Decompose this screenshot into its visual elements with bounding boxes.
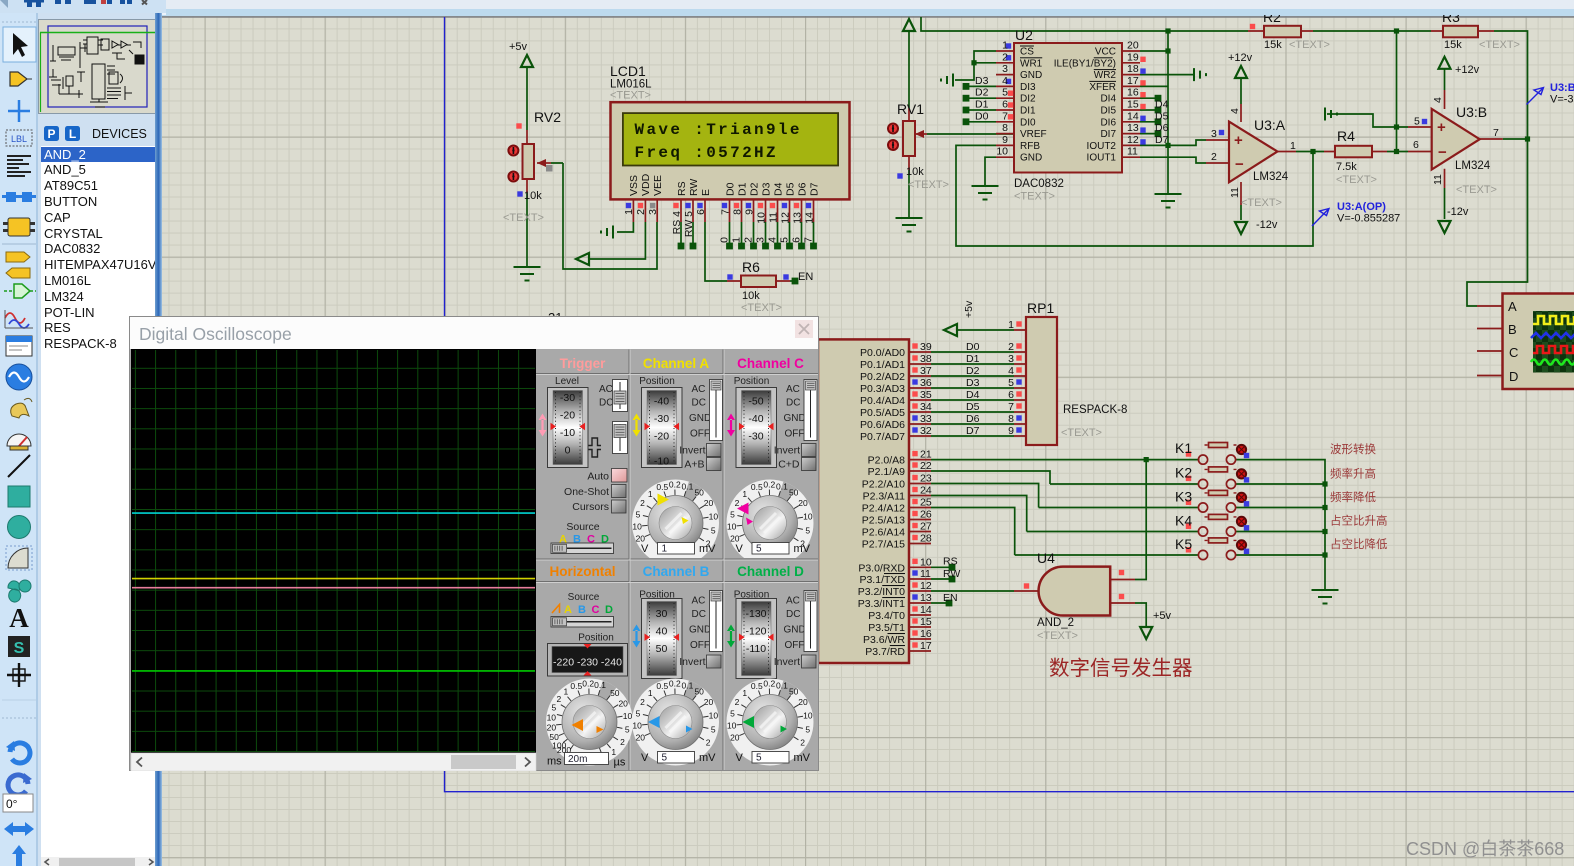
svg-text:D4: D4 — [773, 182, 785, 196]
svg-text:Source: Source — [568, 592, 600, 603]
svg-text:数字信号发生器: 数字信号发生器 — [1049, 657, 1193, 680]
svg-text:DC: DC — [692, 398, 706, 409]
svg-text:LBL: LBL — [11, 134, 27, 144]
svg-text:D1: D1 — [737, 182, 749, 196]
svg-text:+12v: +12v — [1455, 64, 1480, 76]
svg-text:4: 4 — [1008, 365, 1014, 377]
svg-text:LM324: LM324 — [1253, 171, 1289, 183]
svg-text:K3: K3 — [1175, 488, 1192, 504]
svg-text:38: 38 — [920, 353, 932, 365]
svg-text:-20: -20 — [654, 431, 669, 443]
svg-text:OFF: OFF — [690, 429, 710, 440]
svg-text:P3.5/T1: P3.5/T1 — [868, 622, 905, 634]
svg-text:10: 10 — [756, 212, 768, 224]
svg-text:5: 5 — [756, 753, 762, 764]
svg-text:5: 5 — [662, 753, 668, 764]
svg-text:D0: D0 — [975, 110, 989, 122]
svg-text:2: 2 — [743, 237, 755, 243]
svg-text:RW 5: RW 5 — [683, 211, 695, 237]
svg-text:D1: D1 — [966, 353, 980, 365]
svg-text:11: 11 — [920, 568, 931, 580]
svg-text:−: − — [1235, 156, 1244, 173]
svg-text:-10: -10 — [560, 427, 575, 439]
svg-text:AC: AC — [786, 384, 800, 395]
svg-text:VCC: VCC — [1095, 47, 1116, 58]
svg-text:XFER: XFER — [1089, 82, 1116, 93]
svg-text:Position: Position — [578, 633, 614, 644]
svg-text:<TEXT>: <TEXT> — [1061, 427, 1102, 439]
svg-text:26: 26 — [920, 509, 932, 521]
svg-text:-20: -20 — [560, 410, 575, 422]
svg-text:P0.5/AD5: P0.5/AD5 — [860, 407, 905, 419]
svg-text:D5: D5 — [1155, 110, 1169, 122]
svg-text:AC: AC — [786, 596, 800, 607]
svg-text:15: 15 — [920, 616, 932, 628]
svg-text:WR1: WR1 — [1020, 58, 1043, 69]
svg-text:-130: -130 — [745, 608, 766, 620]
svg-text:7.5k: 7.5k — [1336, 161, 1357, 173]
svg-text:V: V — [641, 752, 649, 764]
svg-text:P0.4/AD4: P0.4/AD4 — [860, 395, 905, 407]
svg-text:Freq :0572HZ: Freq :0572HZ — [635, 144, 778, 162]
svg-text:D3: D3 — [966, 377, 980, 389]
svg-text:DI0: DI0 — [1020, 117, 1036, 128]
svg-text:D5: D5 — [966, 401, 980, 413]
svg-text:34: 34 — [920, 401, 932, 413]
svg-text:D: D — [605, 604, 613, 616]
svg-text:9: 9 — [744, 209, 756, 215]
svg-text:25: 25 — [920, 497, 932, 509]
svg-text:19: 19 — [1127, 51, 1139, 63]
svg-text:2: 2 — [1002, 51, 1008, 63]
svg-text:占空比降低: 占空比降低 — [1330, 537, 1388, 551]
svg-text:A+B: A+B — [684, 459, 704, 471]
svg-text:Cursors: Cursors — [572, 501, 609, 513]
svg-text:5: 5 — [1008, 377, 1014, 389]
svg-text:-12v: -12v — [1447, 206, 1469, 218]
svg-text:4: 4 — [1229, 108, 1241, 114]
svg-text:DI6: DI6 — [1100, 117, 1116, 128]
svg-text:GND: GND — [1020, 153, 1042, 164]
svg-text:V=-0.855287: V=-0.855287 — [1337, 213, 1400, 225]
svg-text:D7: D7 — [1155, 134, 1169, 146]
svg-text:P0.2/AD2: P0.2/AD2 — [860, 371, 905, 383]
svg-text:<TEXT>: <TEXT> — [1289, 39, 1330, 51]
svg-text:频率降低: 频率降低 — [1330, 490, 1376, 504]
svg-text:5: 5 — [1002, 87, 1008, 99]
svg-text:D2: D2 — [749, 182, 761, 196]
svg-text:20: 20 — [1127, 40, 1139, 52]
svg-text:−: − — [1438, 144, 1447, 161]
svg-text:P3.7/RD: P3.7/RD — [865, 646, 905, 658]
svg-text:mV: mV — [699, 543, 716, 555]
svg-text:12: 12 — [920, 580, 932, 592]
svg-text:37: 37 — [920, 365, 932, 377]
svg-text:Channel A: Channel A — [643, 356, 710, 371]
svg-text:8: 8 — [1008, 413, 1014, 425]
svg-text:P3.1/TXD: P3.1/TXD — [859, 574, 905, 586]
svg-text:27: 27 — [920, 521, 932, 533]
svg-text:OFF: OFF — [785, 640, 805, 651]
svg-text:EN: EN — [943, 592, 958, 604]
svg-text:28: 28 — [920, 533, 932, 545]
svg-text:Invert: Invert — [774, 445, 800, 457]
svg-text:3: 3 — [1002, 63, 1008, 75]
svg-text:<TEXT>: <TEXT> — [1336, 174, 1377, 186]
svg-text:P0.1/AD1: P0.1/AD1 — [860, 359, 905, 371]
svg-text:GND: GND — [1020, 70, 1042, 81]
svg-text:DC: DC — [692, 609, 706, 620]
svg-text:mV: mV — [699, 752, 716, 764]
svg-text:8: 8 — [1002, 122, 1008, 134]
svg-text:P3.6/WR: P3.6/WR — [863, 634, 905, 646]
svg-text:22: 22 — [920, 460, 932, 472]
svg-text:CS: CS — [1020, 47, 1034, 58]
svg-text:P0.7/AD7: P0.7/AD7 — [860, 431, 905, 443]
svg-text:-40: -40 — [748, 413, 763, 425]
svg-text:8: 8 — [732, 209, 744, 215]
svg-text:-30: -30 — [654, 413, 669, 425]
svg-text:DC: DC — [599, 398, 613, 409]
svg-text:D1: D1 — [975, 99, 989, 111]
svg-text:WR2: WR2 — [1094, 70, 1117, 81]
svg-text:1: 1 — [1290, 140, 1296, 152]
svg-text:DI3: DI3 — [1020, 82, 1036, 93]
svg-text:IOUT2: IOUT2 — [1087, 141, 1117, 152]
svg-text:RS: RS — [676, 181, 688, 196]
svg-text:DI2: DI2 — [1020, 94, 1036, 105]
svg-text:DEVICES: DEVICES — [92, 127, 147, 141]
svg-text:V=-3.: V=-3. — [1550, 94, 1574, 106]
svg-text:-120: -120 — [745, 626, 766, 638]
svg-text:13: 13 — [920, 592, 932, 604]
svg-text:35: 35 — [920, 389, 932, 401]
svg-text:DI7: DI7 — [1100, 129, 1116, 140]
svg-text:1: 1 — [1008, 319, 1014, 331]
svg-text:-50: -50 — [748, 396, 763, 408]
svg-text:D6: D6 — [966, 413, 980, 425]
svg-text:R6: R6 — [742, 259, 760, 275]
svg-text:K1: K1 — [1175, 440, 1192, 456]
svg-text:2: 2 — [635, 209, 647, 215]
svg-text:V: V — [736, 543, 744, 555]
svg-text:P2.0/A8: P2.0/A8 — [868, 455, 906, 467]
svg-text:23: 23 — [920, 473, 932, 485]
svg-text:12: 12 — [1127, 134, 1139, 146]
svg-text:mV: mV — [794, 543, 811, 555]
svg-text:波形转换: 波形转换 — [1330, 442, 1376, 456]
svg-text:17: 17 — [1127, 75, 1139, 87]
svg-text:Invert: Invert — [679, 445, 705, 457]
svg-text:-110: -110 — [746, 643, 766, 655]
svg-text:U4: U4 — [1037, 550, 1055, 566]
svg-text:D3: D3 — [975, 75, 989, 87]
svg-text:One-Shot: One-Shot — [564, 486, 609, 498]
svg-text:D5: D5 — [785, 182, 797, 196]
svg-text:D6: D6 — [1155, 122, 1169, 134]
svg-text:17: 17 — [920, 640, 932, 652]
svg-text:D: D — [1509, 369, 1518, 384]
svg-text:<TEXT>: <TEXT> — [1456, 184, 1497, 196]
svg-text:VEE: VEE — [652, 175, 664, 196]
svg-text:C: C — [1509, 345, 1518, 360]
svg-text:9: 9 — [1002, 134, 1008, 146]
svg-text:ILE(BY1/BY2): ILE(BY1/BY2) — [1054, 58, 1116, 69]
svg-text:B: B — [1508, 322, 1517, 337]
svg-text:A: A — [564, 604, 572, 616]
svg-text:R4: R4 — [1337, 128, 1355, 144]
svg-text:U2: U2 — [1015, 27, 1033, 43]
svg-text:Channel D: Channel D — [737, 564, 804, 579]
svg-text:3: 3 — [1008, 353, 1014, 365]
svg-text:U3:B: U3:B — [1456, 104, 1487, 120]
svg-text:<TEXT>: <TEXT> — [1241, 197, 1282, 209]
svg-text:VREF: VREF — [1020, 129, 1047, 140]
svg-text:ms: ms — [547, 756, 562, 768]
svg-text:50: 50 — [656, 643, 668, 655]
svg-text:7: 7 — [803, 237, 815, 243]
svg-text:DC: DC — [786, 398, 800, 409]
svg-text:9: 9 — [1008, 425, 1014, 437]
svg-text:GND: GND — [784, 625, 806, 636]
svg-text:-220 -230 -240: -220 -230 -240 — [553, 657, 622, 669]
svg-text:14: 14 — [804, 212, 816, 224]
svg-text:Level: Level — [555, 376, 579, 387]
svg-text:+12v: +12v — [1228, 52, 1253, 64]
svg-text:+5v: +5v — [509, 41, 528, 53]
svg-text:<TEXT>: <TEXT> — [503, 212, 544, 224]
svg-text:C+D: C+D — [778, 459, 800, 471]
svg-text:U3:B: U3:B — [1550, 82, 1574, 94]
svg-text:7: 7 — [1008, 401, 1014, 413]
svg-text:DI4: DI4 — [1100, 94, 1116, 105]
svg-text:E: E — [700, 189, 712, 196]
svg-text:24: 24 — [920, 485, 932, 497]
svg-text:D4: D4 — [1155, 99, 1169, 111]
svg-text:16: 16 — [920, 628, 932, 640]
svg-text:5: 5 — [756, 544, 762, 555]
svg-text:LCD1: LCD1 — [610, 63, 646, 79]
svg-text:P2.1/A9: P2.1/A9 — [868, 466, 906, 478]
svg-text:V: V — [736, 752, 744, 764]
svg-text:P3.2/INT0: P3.2/INT0 — [858, 586, 905, 598]
svg-text:Position: Position — [734, 376, 770, 387]
svg-text:Invert: Invert — [679, 656, 705, 668]
svg-text:RV2: RV2 — [534, 109, 561, 125]
svg-text:3: 3 — [755, 237, 767, 243]
svg-text:36: 36 — [920, 377, 932, 389]
svg-text:DAC0832: DAC0832 — [1014, 178, 1064, 190]
svg-text:11: 11 — [1432, 174, 1444, 185]
svg-text:D7: D7 — [966, 425, 980, 437]
svg-text:20m: 20m — [568, 754, 587, 765]
svg-text:+: + — [1234, 132, 1243, 149]
svg-text:D0: D0 — [725, 182, 737, 196]
svg-text:D6: D6 — [797, 182, 809, 196]
svg-text:2: 2 — [1211, 151, 1217, 163]
svg-text:7: 7 — [720, 209, 732, 215]
svg-text:1: 1 — [623, 209, 635, 215]
svg-text:OFF: OFF — [785, 429, 805, 440]
svg-text:4: 4 — [1432, 97, 1444, 103]
svg-text:GND: GND — [689, 413, 711, 424]
svg-text:频率升高: 频率升高 — [1330, 467, 1376, 481]
svg-text:-12v: -12v — [1256, 219, 1278, 231]
svg-text:P3.4/T0: P3.4/T0 — [868, 610, 905, 622]
svg-text:-40: -40 — [654, 396, 669, 408]
svg-text:RFB: RFB — [1020, 141, 1040, 152]
svg-text:Position: Position — [639, 376, 675, 387]
svg-text:P3.3/INT1: P3.3/INT1 — [858, 598, 905, 610]
svg-text:B: B — [578, 604, 586, 616]
svg-text:0°: 0° — [6, 797, 18, 811]
svg-text:P0.0/AD0: P0.0/AD0 — [860, 347, 905, 359]
svg-text:30: 30 — [656, 608, 668, 620]
svg-text:21: 21 — [920, 449, 932, 461]
svg-text:RP1: RP1 — [1027, 300, 1054, 316]
svg-text:CSDN @白茶茶668: CSDN @白茶茶668 — [1406, 839, 1564, 859]
svg-text:RW: RW — [943, 568, 960, 580]
svg-text:V: V — [641, 543, 649, 555]
svg-text:7: 7 — [1493, 127, 1499, 139]
svg-text:<TEXT>: <TEXT> — [1479, 39, 1520, 51]
svg-text:GND: GND — [784, 413, 806, 424]
svg-text:14: 14 — [1127, 110, 1139, 122]
svg-text:10: 10 — [996, 146, 1008, 158]
svg-text:DI5: DI5 — [1100, 106, 1116, 117]
svg-text:6: 6 — [695, 209, 707, 215]
svg-text:Auto: Auto — [587, 471, 609, 483]
svg-text:Wave :Trian9le: Wave :Trian9le — [635, 121, 802, 139]
svg-text:10k: 10k — [906, 166, 924, 178]
svg-text:6: 6 — [1002, 99, 1008, 111]
svg-text:U3:A: U3:A — [1254, 117, 1286, 133]
svg-text:10k: 10k — [742, 290, 760, 302]
svg-text:AND_2: AND_2 — [1037, 617, 1074, 629]
svg-text:3: 3 — [647, 209, 659, 215]
svg-text:P2.2/A10: P2.2/A10 — [862, 479, 905, 491]
svg-text:OFF: OFF — [690, 640, 710, 651]
svg-text:<TEXT>: <TEXT> — [610, 90, 651, 102]
svg-text:Trigger: Trigger — [560, 356, 607, 371]
svg-text:<TEXT>: <TEXT> — [741, 302, 782, 314]
svg-text:14: 14 — [920, 604, 932, 616]
svg-text:-30: -30 — [748, 431, 763, 443]
svg-text:15k: 15k — [1444, 39, 1462, 51]
svg-text:IOUT1: IOUT1 — [1087, 153, 1117, 164]
svg-text:4: 4 — [1002, 75, 1008, 87]
svg-text:Channel B: Channel B — [643, 564, 710, 579]
svg-text:D3: D3 — [761, 182, 773, 196]
svg-text:6: 6 — [791, 237, 803, 243]
svg-text:+5v: +5v — [1153, 610, 1172, 622]
svg-text:LM324: LM324 — [1455, 160, 1491, 172]
svg-text:P3.0/RXD: P3.0/RXD — [858, 562, 905, 574]
svg-text:P: P — [47, 127, 55, 141]
svg-text:D2: D2 — [975, 87, 989, 99]
svg-text:DC: DC — [786, 609, 800, 620]
svg-text:+5v: +5v — [963, 300, 975, 318]
svg-text:0: 0 — [719, 237, 731, 243]
svg-text:EN: EN — [798, 271, 813, 283]
svg-text:K5: K5 — [1175, 536, 1192, 552]
svg-text:RW: RW — [688, 179, 700, 196]
svg-text:16: 16 — [1127, 87, 1139, 99]
svg-text:2: 2 — [1008, 341, 1014, 353]
svg-text:D2: D2 — [966, 365, 980, 377]
svg-text:18: 18 — [1127, 63, 1139, 75]
svg-text:S: S — [14, 640, 25, 657]
svg-text:AC: AC — [692, 384, 706, 395]
svg-text:P2.7/A15: P2.7/A15 — [862, 539, 905, 551]
svg-text:AC: AC — [692, 596, 706, 607]
svg-text:A: A — [9, 603, 29, 633]
svg-text:U3:A(OP): U3:A(OP) — [1337, 201, 1386, 213]
svg-text:40: 40 — [656, 626, 668, 638]
svg-text:Invert: Invert — [774, 656, 800, 668]
svg-text:6: 6 — [1008, 389, 1014, 401]
svg-text:L: L — [69, 127, 76, 141]
svg-text:1: 1 — [731, 237, 743, 243]
svg-text:RS 4: RS 4 — [671, 211, 683, 235]
svg-text:7: 7 — [1002, 110, 1008, 122]
svg-text:13: 13 — [1127, 122, 1139, 134]
svg-text:RV1: RV1 — [897, 101, 924, 117]
svg-text:P2.5/A13: P2.5/A13 — [862, 515, 905, 527]
svg-text:µs: µs — [614, 757, 626, 769]
svg-text:+: + — [1437, 119, 1446, 136]
svg-text:VDD: VDD — [640, 173, 652, 196]
svg-text:39: 39 — [920, 341, 932, 353]
svg-text:mV: mV — [794, 752, 811, 764]
svg-text:占空比升高: 占空比升高 — [1330, 514, 1388, 528]
svg-text:K4: K4 — [1175, 512, 1192, 528]
svg-text:32: 32 — [920, 425, 932, 437]
svg-text:15: 15 — [1127, 99, 1139, 111]
svg-text:1: 1 — [1002, 40, 1008, 52]
svg-text:5: 5 — [1414, 116, 1420, 128]
svg-text:C: C — [592, 604, 600, 616]
svg-text:5: 5 — [779, 237, 791, 243]
svg-text:<TEXT>: <TEXT> — [1014, 191, 1055, 203]
svg-text:0: 0 — [565, 445, 571, 457]
svg-text:VSS: VSS — [628, 175, 640, 196]
svg-text:Digital Oscilloscope: Digital Oscilloscope — [139, 324, 292, 344]
svg-text:11: 11 — [768, 212, 780, 223]
svg-text:AC: AC — [599, 384, 613, 395]
svg-text:P2.3/A11: P2.3/A11 — [863, 491, 906, 503]
svg-text:D0: D0 — [966, 341, 980, 353]
svg-text:15k: 15k — [1264, 39, 1282, 51]
svg-text:P0.6/AD6: P0.6/AD6 — [860, 419, 905, 431]
svg-text:P0.3/AD3: P0.3/AD3 — [860, 383, 905, 395]
svg-text:P2.6/A14: P2.6/A14 — [862, 527, 905, 539]
svg-text:DI1: DI1 — [1020, 106, 1036, 117]
svg-text:33: 33 — [920, 413, 932, 425]
svg-text:Source: Source — [566, 521, 599, 533]
svg-text:12: 12 — [780, 212, 792, 224]
svg-text:11: 11 — [1229, 187, 1241, 198]
svg-text:D7: D7 — [809, 182, 821, 196]
svg-text:D4: D4 — [966, 389, 980, 401]
svg-text:10k: 10k — [524, 190, 542, 202]
svg-text:Horizontal: Horizontal — [550, 564, 616, 579]
svg-text:RESPACK-8: RESPACK-8 — [1063, 404, 1127, 416]
svg-text:13: 13 — [792, 212, 804, 224]
svg-text:R3: R3 — [1442, 15, 1460, 25]
svg-text:10: 10 — [920, 556, 932, 568]
svg-text:6: 6 — [1413, 139, 1419, 151]
